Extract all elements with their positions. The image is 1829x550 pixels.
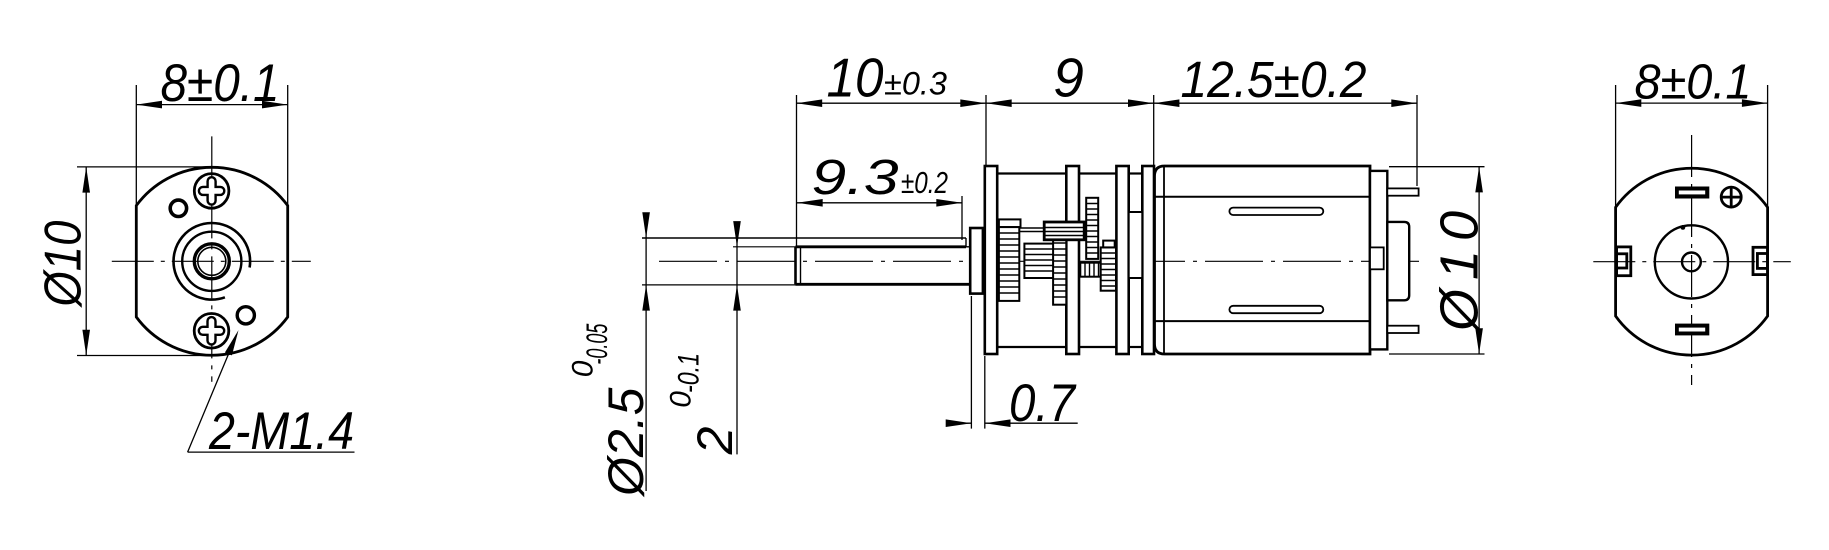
dimension 9.3±0.2	[797, 196, 962, 240]
gear 1	[999, 227, 1019, 301]
can crimp line bottom	[1155, 320, 1370, 322]
gear pinion cap	[999, 219, 1021, 227]
shaft round-top line / Ø2.5 extension	[642, 237, 966, 239]
bearing block lines between plates 3 and 4	[1129, 212, 1143, 278]
motor can	[1155, 166, 1371, 354]
dimension 2 0/-0.1	[736, 222, 738, 454]
svg-text:8±0.1: 8±0.1	[1635, 56, 1752, 110]
hub outer broken arc	[174, 223, 251, 300]
gear teeth hatching	[999, 204, 1116, 298]
gearbox plate 3	[1116, 166, 1128, 354]
vent slot bottom	[1229, 306, 1323, 313]
brush housing protrusion	[1387, 222, 1409, 300]
centerline horizontal	[1593, 261, 1791, 263]
bearing circle	[1655, 225, 1728, 298]
motor end cap	[1370, 171, 1387, 350]
svg-text:Ø10: Ø10	[1430, 202, 1490, 333]
gear 6	[1101, 247, 1116, 290]
long pinion bar	[1044, 222, 1084, 240]
svg-text:9.3: 9.3	[812, 151, 899, 205]
centerline vertical	[211, 136, 213, 381]
screw M1.4 top	[194, 174, 229, 209]
output shaft	[642, 238, 970, 285]
bearing block	[1129, 212, 1143, 278]
motor face inner line	[1163, 167, 1165, 353]
locating dot	[1681, 225, 1686, 230]
vent slot top	[1675, 187, 1709, 199]
flat extension line	[733, 246, 796, 248]
vent slot bottom	[1675, 324, 1709, 336]
gear 6 cap	[1103, 241, 1115, 248]
svg-text:Ø2.5: Ø2.5	[598, 387, 654, 498]
shaft end circle	[1682, 253, 1701, 272]
gear 4 column	[1086, 198, 1098, 259]
small hole upper-left	[170, 200, 186, 216]
gearbox plate 2	[1066, 166, 1079, 354]
svg-text:8±0.1: 8±0.1	[161, 54, 280, 113]
svg-text:2: 2	[687, 426, 743, 455]
gearbox housing lines	[997, 174, 1142, 348]
dimension Ø10 (left view)	[77, 167, 210, 356]
can crimp line top	[1155, 196, 1370, 198]
centerline vertical	[1691, 135, 1693, 385]
right terminal tab	[1753, 247, 1768, 274]
bearing notch	[1370, 247, 1384, 269]
small hole lower-right (M1.4 tap)	[237, 307, 254, 324]
gearbox plate 4	[1142, 166, 1154, 354]
front view outline	[136, 167, 287, 355]
svg-text:-0.1: -0.1	[673, 353, 706, 393]
upper layshaft lines	[1019, 227, 1044, 229]
gearbox plate 1	[985, 166, 997, 354]
terminal pin bottom	[1387, 326, 1418, 333]
dimension 0.7	[948, 296, 1078, 429]
dimension 8±0.1 (left view)	[136, 85, 287, 206]
hub middle circle	[182, 232, 241, 291]
bearing flange	[970, 228, 983, 294]
svg-text:9: 9	[1053, 47, 1084, 109]
axis centerline	[659, 260, 1423, 262]
svg-text:12.5±0.2: 12.5±0.2	[1181, 51, 1367, 108]
gear 2	[1024, 244, 1053, 278]
leader 2-M1.4	[188, 334, 355, 452]
svg-text:-0.05: -0.05	[581, 323, 614, 364]
dimension 8±0.1 (right view)	[1616, 85, 1768, 207]
left terminal tab	[1617, 247, 1631, 276]
shaft boss bold circle	[194, 244, 229, 279]
svg-text:±0.2: ±0.2	[901, 165, 948, 200]
gear 3 column	[1053, 237, 1066, 305]
polarity mark	[1721, 187, 1741, 207]
centerline horizontal	[112, 260, 311, 262]
back view outline	[1616, 168, 1768, 355]
terminal pin top	[1387, 188, 1418, 195]
svg-text:10: 10	[827, 47, 884, 109]
svg-text:±0.3: ±0.3	[884, 66, 947, 102]
dimension Ø2.5 0/-0.05	[645, 214, 647, 491]
shaft circle	[198, 247, 226, 275]
svg-text:2-M1.4: 2-M1.4	[208, 402, 354, 461]
dimension Ø10 (motor)	[1389, 167, 1485, 354]
top chained dimensions 10±0.3 / 9 / 12.5±0.2	[797, 95, 1418, 247]
vent slot top	[1229, 208, 1323, 215]
gear train	[999, 198, 1142, 305]
gear 5 small	[1080, 263, 1100, 277]
svg-text:0.7: 0.7	[1009, 374, 1077, 433]
screw M1.4 bottom	[194, 314, 229, 349]
svg-text:Ø10: Ø10	[35, 221, 93, 309]
